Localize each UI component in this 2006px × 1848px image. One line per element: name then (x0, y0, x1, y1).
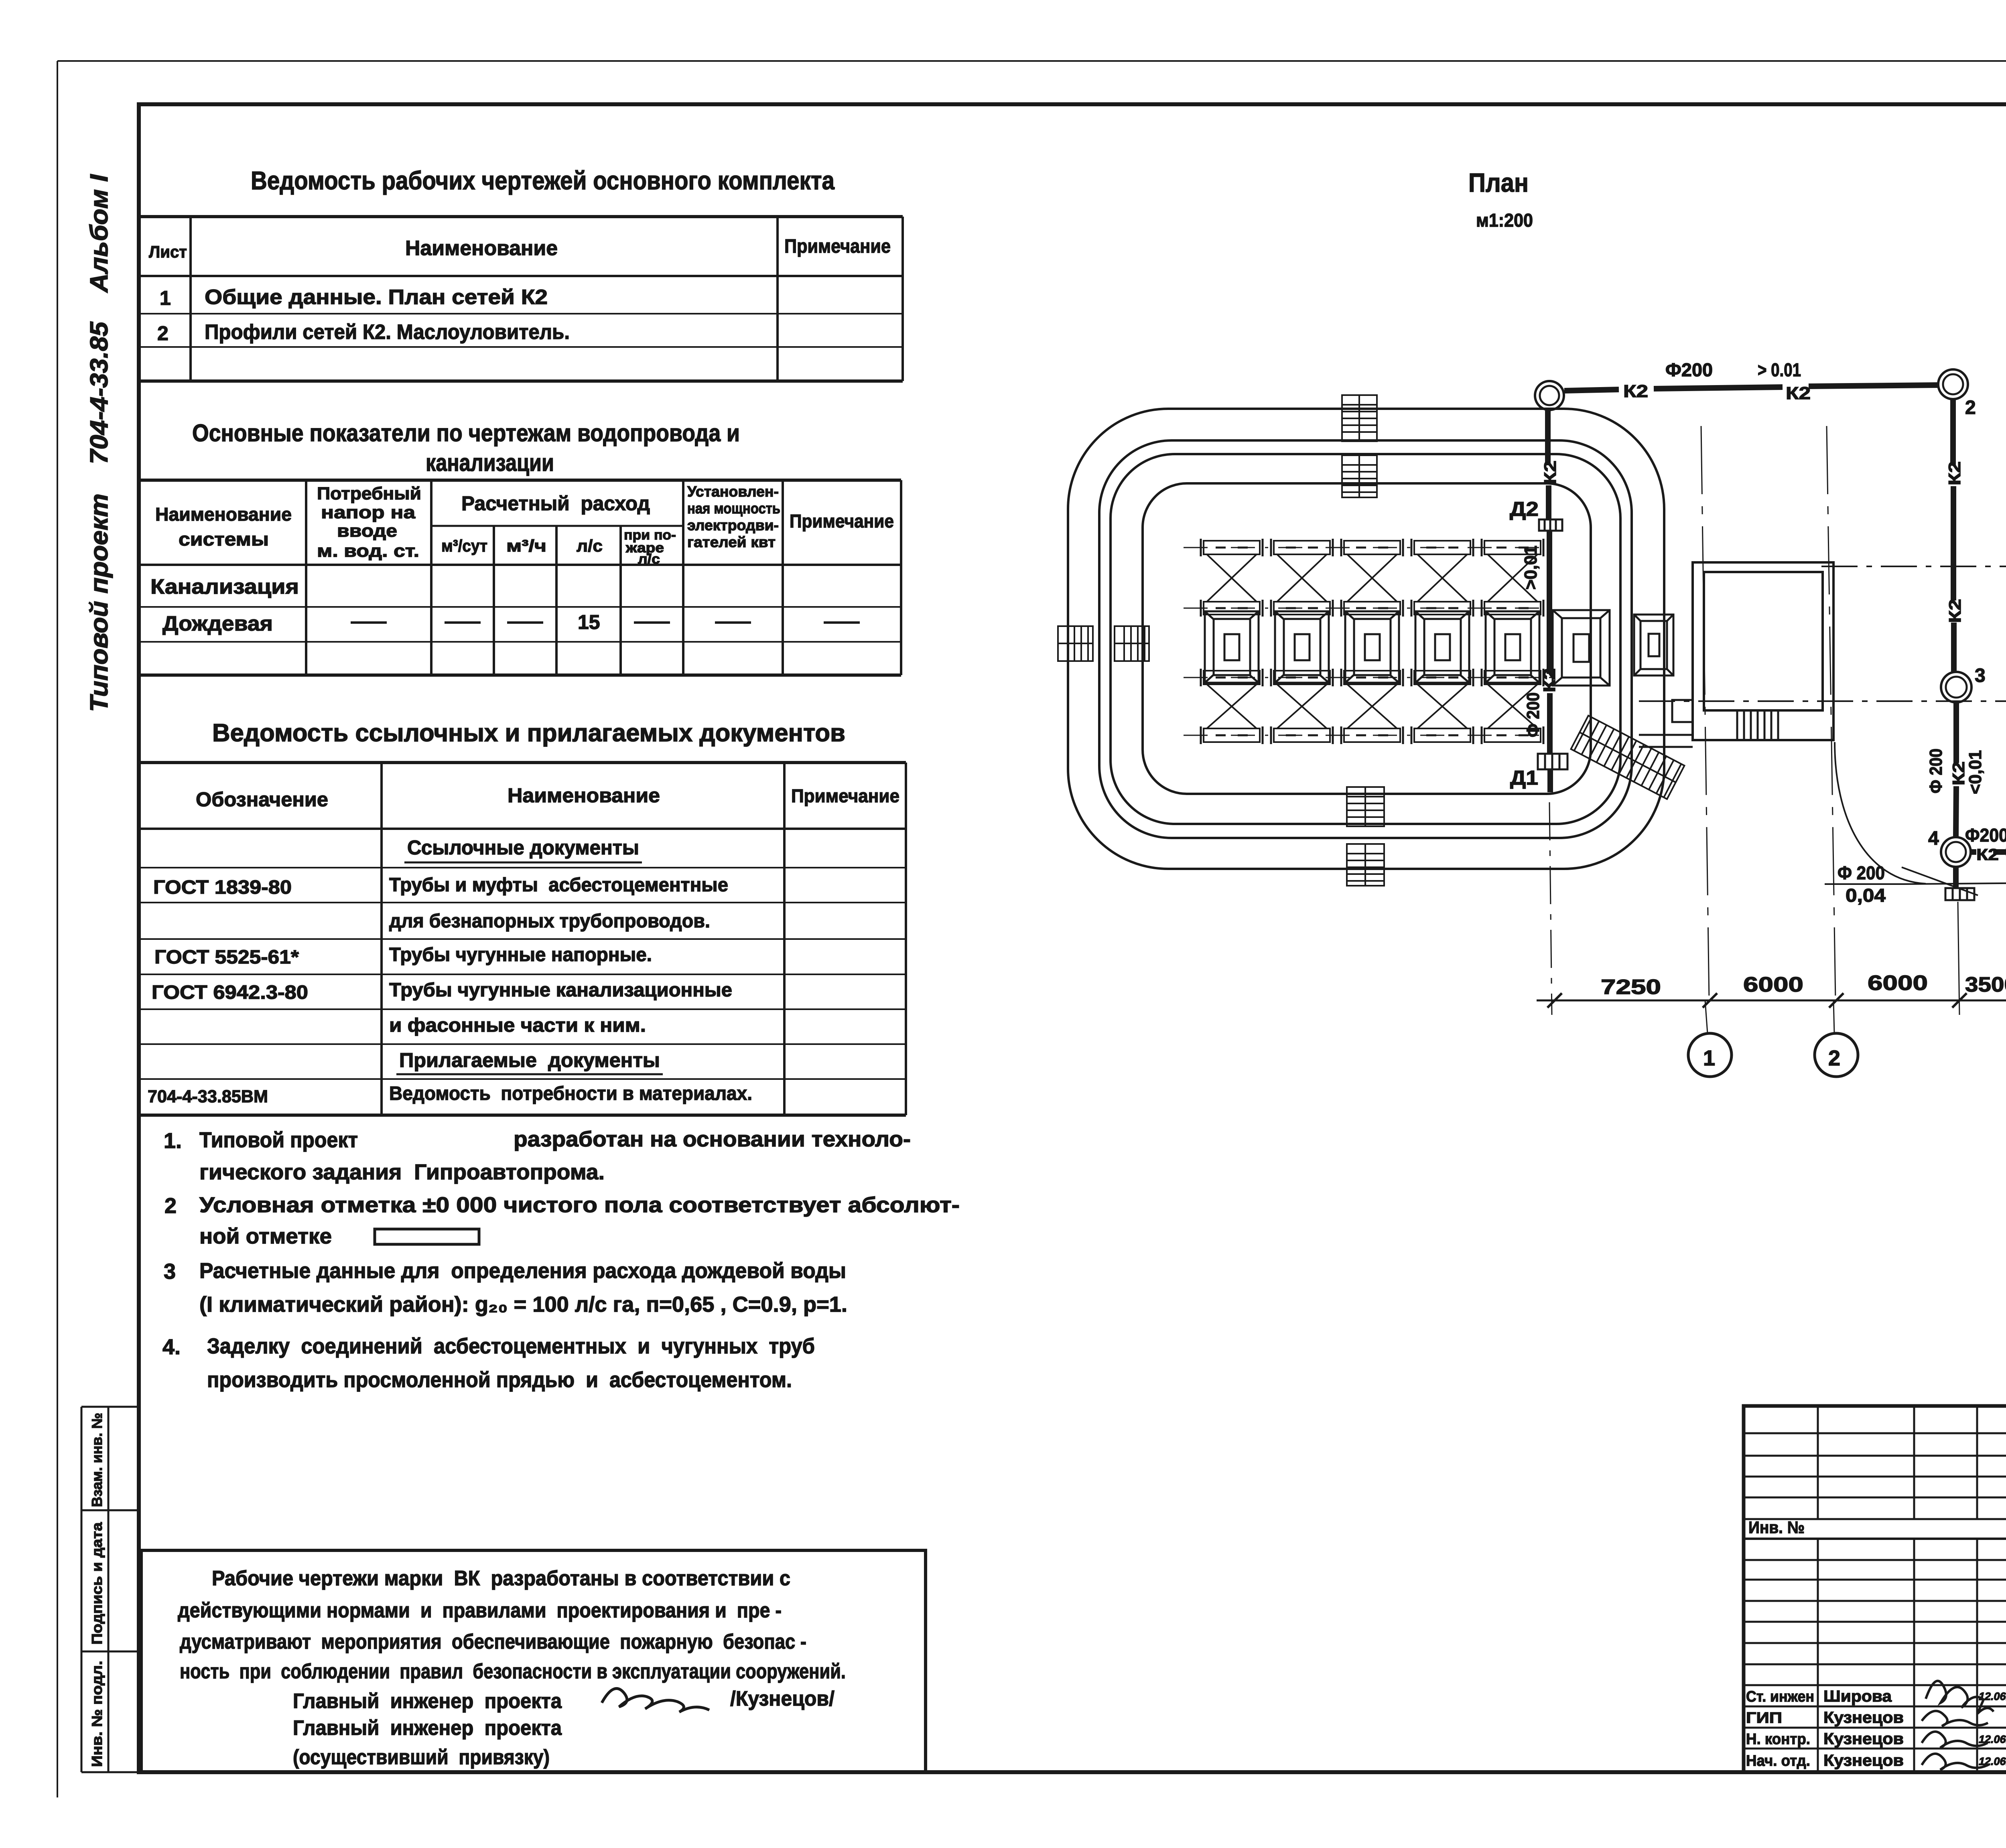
svg-text:Наименование: Наименование (405, 237, 558, 260)
svg-text:ГИП: ГИП (1746, 1710, 1782, 1726)
tank 7 (1634, 615, 1673, 676)
svg-text:6000: 6000 (1743, 973, 1803, 996)
svg-text:Трубы чугунные канализационные: Трубы чугунные канализационные (389, 980, 732, 1001)
svg-text:л/с: л/с (577, 536, 603, 555)
svg-text:Д1: Д1 (1510, 767, 1538, 789)
svg-text:Ведомость ссылочных и прилагае: Ведомость ссылочных и прилагаемых докуме… (212, 719, 845, 747)
svg-text:Канализация: Канализация (150, 575, 299, 598)
svg-text:Н. контр.: Н. контр. (1746, 1731, 1810, 1748)
extension lines (1549, 426, 2006, 1033)
svg-text:К2: К2 (1945, 461, 1964, 485)
svg-text:Прилагаемые документы: Прилагаемые документы (399, 1049, 660, 1071)
axis circle 2 (1815, 1033, 1858, 1077)
svg-text:Ссылочные документы: Ссылочные документы (407, 836, 639, 859)
tank 1 (1205, 611, 1259, 683)
svg-text:План: План (1468, 168, 1529, 197)
svg-text:вводе: вводе (337, 521, 397, 541)
svg-text:704-4-33.85ВМ: 704-4-33.85ВМ (148, 1087, 268, 1106)
road arc near building (1835, 742, 1926, 884)
svg-text:Обозначение: Обозначение (196, 788, 328, 811)
dike road ring 3 (1111, 454, 1620, 824)
rain inlet D1 (1538, 754, 1567, 769)
svg-text:Трубы чугунные напорные.: Трубы чугунные напорные. (389, 944, 652, 966)
svg-text:канализации: канализации (426, 449, 554, 476)
signature GIP (602, 1688, 709, 1712)
svg-text:м³/сут: м³/сут (441, 536, 487, 555)
table 3: reference documents (139, 763, 906, 1115)
svg-text:Д2: Д2 (1510, 498, 1539, 520)
svg-text:м. вод. ст.: м. вод. ст. (317, 541, 419, 561)
tank 2 (1275, 611, 1329, 683)
svg-text:Рабочие чертежи марки ВК раз: Рабочие чертежи марки ВК разработаны в с… (212, 1567, 790, 1590)
svg-text:2: 2 (1828, 1046, 1840, 1070)
svg-text:Дождевая: Дождевая (162, 612, 273, 635)
svg-text:1.: 1. (164, 1129, 182, 1153)
svg-text:Инв. №: Инв. № (1748, 1518, 1805, 1537)
svg-text:действующими нормами и прави: действующими нормами и правилами проекти… (178, 1599, 782, 1622)
svg-text:Установлен-: Установлен- (687, 483, 779, 500)
tank 3 (1345, 611, 1399, 683)
ladder top (1342, 395, 1377, 497)
signature kuznetsov1 (1922, 1711, 1988, 1726)
notes (162, 1127, 960, 1392)
svg-text:Кузнецов: Кузнецов (1823, 1730, 1904, 1748)
svg-text:7250: 7250 (1601, 976, 1661, 999)
svg-text:(I климатический район): g₂₀ =: (I климатический район): g₂₀ = 100 л/с г… (199, 1292, 847, 1317)
svg-text:Инв. № подл.: Инв. № подл. (89, 1661, 105, 1767)
svg-text:2: 2 (1965, 397, 1976, 418)
svg-text:Примечание: Примечание (791, 785, 899, 806)
ladder bottom (1347, 787, 1384, 886)
svg-text:Заделку соединений асбестоце: Заделку соединений асбестоцементных и чу… (207, 1334, 815, 1358)
svg-text:1: 1 (1703, 1046, 1715, 1070)
table 1: sheet register (139, 217, 903, 381)
dike road ring 2 (1099, 440, 1632, 838)
svg-text:Ф200: Ф200 (1665, 359, 1713, 380)
manhole 2 (1938, 369, 1968, 399)
table 2: main indicators (139, 480, 901, 675)
tank 6 (1553, 610, 1610, 686)
svg-text:Ведомость потребности в матер: Ведомость потребности в материалах. (389, 1083, 752, 1104)
svg-text:Кузнецов: Кузнецов (1823, 1709, 1904, 1726)
svg-text:системы: системы (179, 529, 269, 550)
svg-text:12.06.85: 12.06.85 (1979, 1755, 2006, 1767)
title block grid (1744, 1406, 2006, 1772)
manhole 3 (1941, 672, 1971, 702)
svg-text:Ф 200: Ф 200 (1523, 692, 1543, 737)
svg-text:6000: 6000 (1868, 972, 1928, 995)
svg-text:Примечание: Примечание (784, 236, 891, 257)
tank 4 (1415, 611, 1469, 683)
ladder left (1058, 626, 1149, 661)
svg-text:К2: К2 (1540, 668, 1559, 692)
svg-text:Расчетный расход: Расчетный расход (461, 492, 650, 515)
svg-text:Расчетные данные для определе: Расчетные данные для определения расхода… (199, 1259, 846, 1283)
svg-text:3: 3 (164, 1260, 176, 1284)
svg-text:м1:200: м1:200 (1476, 210, 1533, 231)
svg-text:К2: К2 (1541, 460, 1559, 485)
svg-text:>0,01: >0,01 (1521, 546, 1541, 590)
svg-text:К2: К2 (1623, 381, 1648, 401)
svg-text:Общие данные. План сетей К2: Общие данные. План сетей К2 (205, 286, 548, 309)
svg-text:разработан на основании технол: разработан на основании техноло- (514, 1127, 911, 1151)
axis circle 1 (1688, 1033, 1732, 1077)
tank 5 (1486, 611, 1539, 683)
svg-text:15: 15 (578, 611, 600, 633)
svg-text:Ведомость рабочих чертежей осн: Ведомость рабочих чертежей основного ком… (251, 166, 834, 195)
svg-text:Профили сетей К2. Маслоуловите: Профили сетей К2. Маслоуловитель. (205, 321, 570, 344)
catwalk strips (1184, 539, 1553, 744)
svg-text:К2: К2 (1976, 846, 1999, 864)
svg-text:(осуществивший привязку): (осуществивший привязку) (293, 1746, 550, 1769)
axis A (1639, 682, 2006, 720)
svg-text:ГОСТ 1839-80: ГОСТ 1839-80 (153, 877, 292, 898)
svg-text:Потребный: Потребный (317, 484, 421, 503)
pipe manhole4 to oil trap (1971, 849, 2006, 855)
svg-text:Взам. инв. №: Взам. инв. № (89, 1413, 105, 1507)
dike road ring 4 (1143, 483, 1591, 794)
svg-text:Ф200: Ф200 (1965, 825, 2006, 846)
svg-text:/Кузнецов/: /Кузнецов/ (730, 1687, 834, 1710)
svg-text:3500: 3500 (1965, 973, 2006, 996)
svg-text:12.06.85: 12.06.85 (1979, 1733, 2006, 1745)
svg-text:Нач. отд.: Нач. отд. (1746, 1753, 1810, 1769)
building door grate (1737, 710, 1778, 740)
svg-text:Наименование: Наименование (508, 784, 660, 807)
svg-text:Примечание: Примечание (790, 511, 894, 531)
svg-text:4.: 4. (162, 1335, 181, 1359)
building porch (1639, 700, 1693, 747)
svg-text:Кузнецов: Кузнецов (1823, 1752, 1904, 1769)
svg-text:Трубы и муфты асбестоцементны: Трубы и муфты асбестоцементные (389, 874, 728, 896)
svg-text:ная мощность: ная мощность (687, 500, 780, 517)
svg-text:электродви-: электродви- (687, 517, 779, 534)
dike road ring 1 (1068, 409, 1664, 869)
svg-text:Типовой проект: Типовой проект (199, 1128, 358, 1152)
svg-text:дусматривают мероприятия обе: дусматривают мероприятия обеспечивающие … (180, 1630, 806, 1653)
svg-text:Лист: Лист (149, 242, 187, 261)
svg-text:для безнапорных трубопроводов.: для безнапорных трубопроводов. (389, 911, 710, 932)
svg-text:ной отметке: ной отметке (199, 1224, 332, 1248)
svg-text:Главный инженер проекта: Главный инженер проекта (293, 1690, 562, 1713)
svg-text:Ст. инжен: Ст. инжен (1746, 1688, 1814, 1705)
svg-text:К2: К2 (1786, 383, 1811, 403)
svg-text:3: 3 (1975, 665, 1986, 686)
svg-text:Наименование: Наименование (155, 504, 292, 525)
signature kuznetsov3 (1922, 1754, 1990, 1770)
svg-text:Подпись и дата: Подпись и дата (89, 1522, 105, 1645)
svg-text:2: 2 (157, 322, 169, 345)
svg-text:Основные показатели по чертежа: Основные показатели по чертежам водопров… (192, 420, 740, 446)
svg-text:2: 2 (164, 1194, 177, 1218)
svg-text:гателей квт: гателей квт (687, 534, 776, 550)
rain inlet bottom (1945, 888, 1974, 900)
svg-text:0,04: 0,04 (1846, 885, 1886, 906)
svg-text:и фасонные части к ним.: и фасонные части к ним. (389, 1015, 646, 1036)
pipe vertical right K2 (1953, 399, 1956, 888)
svg-text:К2: К2 (1949, 761, 1968, 785)
svg-text:Широва: Широва (1823, 1688, 1892, 1705)
x braces (1207, 554, 1537, 728)
svg-text:Ф 200: Ф 200 (1926, 749, 1946, 793)
rain inlet D2 (1539, 519, 1562, 531)
svg-text:<0,01: <0,01 (1965, 750, 1985, 794)
manhole 1 (1535, 381, 1564, 410)
left margin boxes (81, 1407, 139, 1772)
building (1693, 562, 1833, 740)
svg-text:напор на: напор на (321, 503, 416, 522)
svg-text:1: 1 (160, 287, 171, 309)
left margin stamp text (85, 174, 113, 712)
svg-text:гического задания Гипроавтопр: гического задания Гипроавтопрома. (199, 1160, 605, 1184)
pipe vertical left K2 (1548, 410, 1550, 792)
svg-text:Главный инженер проекта: Главный инженер проекта (293, 1716, 562, 1740)
table 2 dashes (351, 621, 860, 624)
svg-text:л/с: л/с (638, 552, 660, 567)
signature shirova (1926, 1681, 1994, 1714)
pipe top horizontal K2 (1564, 385, 1938, 391)
svg-text:ность при соблюдении правил: ность при соблюдении правил безопасности… (180, 1660, 846, 1683)
work drawings note box (141, 1550, 926, 1772)
svg-text:Типовой проект 704-4-33.85: Типовой проект 704-4-33.85 Альбом I (85, 174, 113, 712)
svg-text:4: 4 (1928, 828, 1939, 849)
svg-text:производить просмоленной прядь: производить просмоленной прядью и асбест… (207, 1368, 792, 1392)
svg-text:ГОСТ 5525-61*: ГОСТ 5525-61* (154, 947, 299, 968)
svg-text:> 0.01: > 0.01 (1758, 359, 1801, 380)
dimension line (1537, 972, 2006, 1008)
svg-text:Условная отметка ±0 000 чистог: Условная отметка ±0 000 чистого пола соо… (199, 1193, 960, 1217)
svg-text:ГОСТ 6942.3-80: ГОСТ 6942.3-80 (152, 982, 308, 1003)
svg-text:К2: К2 (1945, 599, 1964, 623)
axis B (1821, 547, 2006, 586)
signature kuznetsov2 (1922, 1732, 1988, 1748)
manhole 4 (1941, 837, 1971, 867)
svg-text:м³/ч: м³/ч (506, 536, 546, 555)
ladder diagonal (1571, 716, 1685, 799)
